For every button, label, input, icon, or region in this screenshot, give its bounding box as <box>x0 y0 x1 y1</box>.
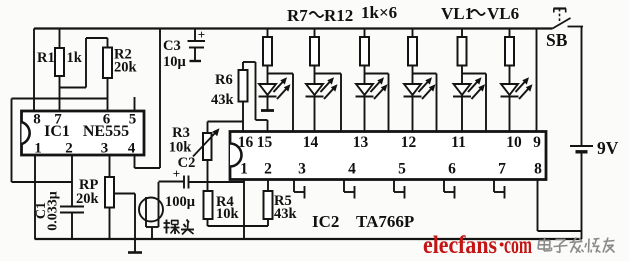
watermark dianzifashaoyou <box>538 238 615 253</box>
resistor R4 <box>204 182 213 226</box>
svg-text:43k: 43k <box>211 92 235 108</box>
pin number 8 <box>33 112 41 128</box>
label IC1 <box>44 123 70 140</box>
label R4 <box>216 194 234 210</box>
potentiometer R3 <box>203 122 244 183</box>
resistor RP <box>105 177 114 239</box>
label 10k <box>169 140 193 156</box>
wire SB to battery <box>581 27 583 147</box>
resistor R2 <box>103 38 112 111</box>
wire pin 2 down <box>71 155 73 207</box>
wire +9V rail to pin 9 <box>536 29 538 132</box>
capacitor C2 <box>184 176 189 189</box>
resistor R1 <box>55 29 64 112</box>
wire probe to C2 <box>159 181 185 183</box>
wire RP wiper to ground <box>114 194 135 253</box>
pin number 4 <box>348 161 356 178</box>
svg-text:R6: R6 <box>215 72 233 88</box>
pin number 13 <box>353 134 369 151</box>
label 100u <box>165 194 196 210</box>
svg-text:11: 11 <box>451 134 466 151</box>
label R1 <box>37 50 55 66</box>
svg-text:3: 3 <box>298 161 306 178</box>
label RP <box>79 177 98 193</box>
stub unused pin <box>444 180 455 199</box>
label 9V <box>597 138 619 158</box>
wire pin 5 stub <box>134 97 136 111</box>
svg-text:20k: 20k <box>76 191 100 207</box>
svg-text:4: 4 <box>348 161 356 178</box>
label VL1~VL6 <box>441 4 519 23</box>
resistor R12 <box>505 29 514 85</box>
svg-text:10: 10 <box>506 134 522 151</box>
watermark elecfans.com <box>423 232 532 259</box>
svg-text:R7: R7 <box>287 6 308 25</box>
pin number 3 <box>101 141 109 157</box>
wire C2 to R3 R4 pin1 <box>189 181 245 183</box>
LED VL4 <box>404 77 436 131</box>
svg-text:1: 1 <box>240 161 248 178</box>
wire R1-R2 bridge <box>60 38 108 88</box>
svg-text:C2: C2 <box>178 155 196 171</box>
svg-text:3: 3 <box>101 141 109 157</box>
microphone probe element lines <box>146 182 159 239</box>
svg-text:10k: 10k <box>169 140 193 156</box>
svg-text:com: com <box>504 232 532 259</box>
resistor R7 <box>263 29 293 132</box>
pin number 4 <box>128 141 136 157</box>
label probe (CJK tantou) <box>164 220 195 235</box>
svg-text:8: 8 <box>33 112 41 128</box>
wire pin 1 to ground <box>34 155 36 239</box>
resistor R5 <box>264 180 273 227</box>
pin number 7 <box>498 161 506 178</box>
svg-text:20k: 20k <box>114 60 138 76</box>
pin number 5 <box>129 112 137 128</box>
svg-text:8: 8 <box>534 161 542 178</box>
label 43k <box>274 206 298 222</box>
switch SB contact <box>568 26 584 28</box>
pin number 6 <box>103 112 111 128</box>
svg-text:VL1: VL1 <box>441 4 473 23</box>
svg-text:6: 6 <box>448 161 456 178</box>
svg-text:10μ: 10μ <box>163 54 187 70</box>
resistor R6 <box>239 62 268 132</box>
svg-text:2: 2 <box>264 161 272 178</box>
LED VL3 <box>356 77 388 131</box>
svg-text:R12: R12 <box>324 6 353 25</box>
stub unused pin <box>294 180 305 199</box>
label R6 <box>215 72 233 88</box>
pin number 12 <box>401 134 417 151</box>
pin number 2 <box>65 141 73 157</box>
label 20k <box>114 60 138 76</box>
pin number 15 <box>257 134 273 151</box>
svg-text:0.033μ: 0.033μ <box>46 191 61 231</box>
wire top +9V rail <box>34 27 553 29</box>
svg-text:5: 5 <box>129 112 137 128</box>
pin number 8 <box>534 161 542 178</box>
pin number 6 <box>448 161 456 178</box>
wire IC2 pin 1 down <box>243 180 245 227</box>
label NE555 <box>83 123 129 140</box>
svg-text:+: + <box>173 166 180 181</box>
svg-text:+: + <box>198 27 205 42</box>
svg-text:4: 4 <box>128 141 136 157</box>
wire pin 4 to VCC <box>135 29 161 169</box>
svg-text:5: 5 <box>398 161 406 178</box>
label C3 <box>163 38 181 54</box>
op-amp U1 IC1 NE555 box <box>22 111 145 155</box>
label R3 <box>172 125 190 141</box>
resistor R10 <box>408 29 437 132</box>
label SB <box>546 30 568 50</box>
pin number 10 <box>506 134 522 151</box>
switch SB blade <box>553 18 571 29</box>
svg-text:elecfans: elecfans <box>423 232 497 259</box>
svg-text:16: 16 <box>238 134 254 151</box>
svg-text:IC2: IC2 <box>312 212 339 231</box>
label 20k <box>76 191 100 207</box>
pin number 9 <box>533 134 541 151</box>
label TA766P <box>356 212 414 231</box>
svg-text:C3: C3 <box>163 38 181 54</box>
LED VL2 <box>306 77 338 131</box>
microphone probe circle <box>139 198 163 222</box>
LED VL1 <box>259 77 291 110</box>
op-amp U2 IC2 TA766P box <box>230 132 546 180</box>
svg-text:2: 2 <box>65 141 73 157</box>
label C1 0.033u <box>34 191 61 231</box>
stub unused pin <box>494 180 505 199</box>
svg-text:6: 6 <box>103 112 111 128</box>
pin number 2 <box>264 161 272 178</box>
svg-text:14: 14 <box>303 134 319 151</box>
pin number 1 <box>240 161 248 178</box>
svg-text:7: 7 <box>498 161 506 178</box>
capacitor C1 <box>60 207 84 240</box>
svg-text:13: 13 <box>353 134 369 151</box>
label 43k <box>211 92 235 108</box>
wire pin6 to pin2 left loop <box>12 99 108 183</box>
wire R4 R5 bottom tie <box>208 226 269 239</box>
label 1k x 6 <box>361 3 397 22</box>
pin number 11 <box>451 134 466 151</box>
svg-text:R1: R1 <box>37 50 55 66</box>
svg-text:TA766P: TA766P <box>356 212 414 231</box>
ground symbol <box>128 251 142 254</box>
LED VL5 <box>453 77 485 131</box>
pin number 7 <box>54 112 62 128</box>
svg-text:1: 1 <box>34 141 42 157</box>
wire bottom ground rail <box>35 238 582 240</box>
svg-text:1k×6: 1k×6 <box>361 3 397 22</box>
stub unused pin <box>394 180 405 199</box>
resistor R11 <box>458 29 487 132</box>
svg-text:10k: 10k <box>216 206 240 222</box>
svg-text:15: 15 <box>257 134 273 151</box>
label C3 plus <box>198 27 205 42</box>
svg-text:100μ: 100μ <box>165 194 196 210</box>
label 1k <box>67 50 83 66</box>
capacitor C3 <box>188 29 206 62</box>
svg-text:7: 7 <box>54 112 62 128</box>
label R7~R12 <box>287 6 353 25</box>
pin number 16 <box>238 134 254 151</box>
stub unused pin <box>344 180 355 199</box>
label C2 plus <box>173 166 180 181</box>
pin number 14 <box>303 134 319 151</box>
svg-text:9V: 9V <box>597 138 619 158</box>
label R5 <box>274 193 292 209</box>
svg-text:43k: 43k <box>274 206 298 222</box>
pin number 1 <box>34 141 42 157</box>
battery GB 9V <box>570 146 593 239</box>
label 10k <box>216 206 240 222</box>
resistor R9 <box>360 29 389 132</box>
LED VL6 <box>501 77 533 131</box>
wire VCC to pin 8 <box>33 29 35 112</box>
svg-text:SB: SB <box>546 30 568 50</box>
wire pin 8 to battery minus <box>538 180 582 232</box>
label 10u <box>163 54 187 70</box>
switch SB actuator <box>554 9 567 22</box>
svg-text:9: 9 <box>533 134 541 151</box>
pin number 3 <box>298 161 306 178</box>
svg-text:VL6: VL6 <box>487 4 519 23</box>
pin number 5 <box>398 161 406 178</box>
svg-text:1k: 1k <box>67 50 83 66</box>
wire pin 3 down <box>109 155 111 177</box>
label R2 <box>114 47 132 63</box>
svg-text:12: 12 <box>401 134 417 151</box>
label IC2 <box>312 212 339 231</box>
arrow R3 wiper <box>193 128 220 156</box>
label C2 <box>178 155 196 171</box>
resistor R8 <box>310 29 341 132</box>
